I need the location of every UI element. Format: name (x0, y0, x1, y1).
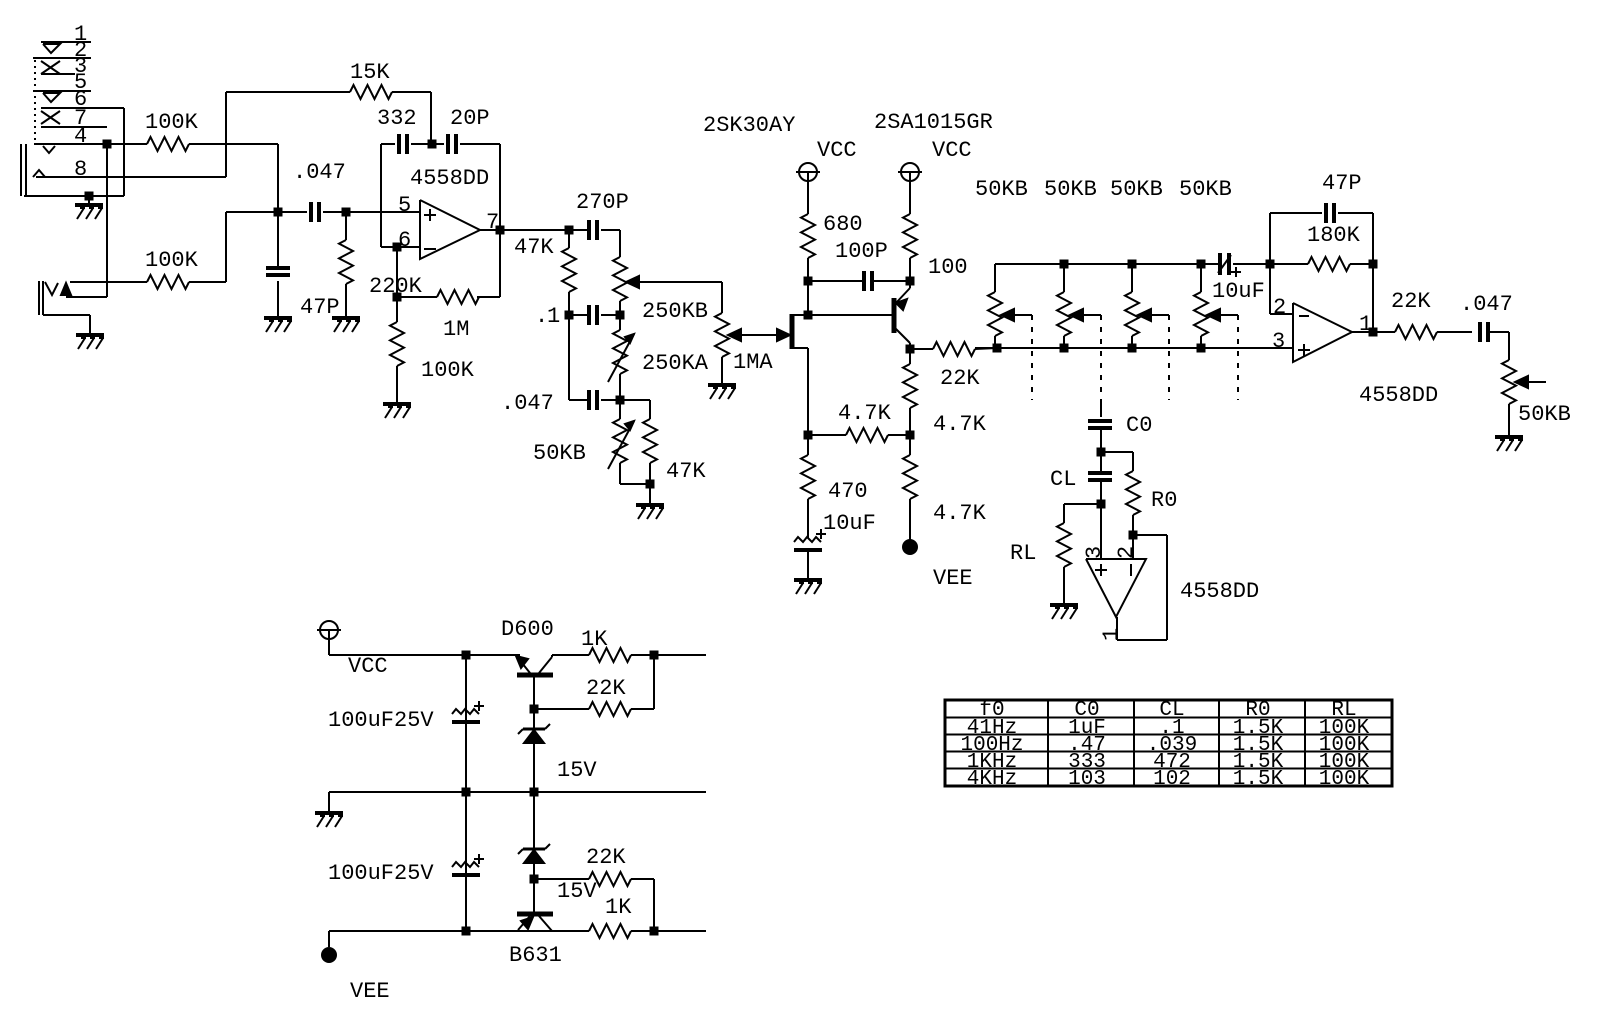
svg-text:50KB: 50KB (533, 441, 586, 466)
svg-text:.047: .047 (293, 160, 346, 185)
svg-text:100P: 100P (835, 239, 888, 264)
svg-text:22K: 22K (940, 366, 980, 391)
svg-text:4.7K: 4.7K (933, 412, 987, 437)
svg-text:47K: 47K (666, 459, 706, 484)
svg-text:2: 2 (1273, 295, 1286, 320)
svg-text:250KA: 250KA (642, 351, 709, 376)
svg-text:47P: 47P (1322, 171, 1362, 196)
svg-text:100K: 100K (145, 248, 199, 273)
svg-text:4558DD: 4558DD (1359, 383, 1438, 408)
svg-text:CL: CL (1050, 467, 1076, 492)
svg-text:.047: .047 (501, 391, 554, 416)
svg-text:47K: 47K (514, 235, 554, 260)
svg-text:1K: 1K (581, 627, 608, 652)
svg-text:15V: 15V (557, 758, 597, 783)
svg-text:4.7K: 4.7K (838, 401, 892, 426)
svg-text:22K: 22K (586, 676, 626, 701)
svg-text:4: 4 (74, 124, 87, 149)
svg-text:VCC: VCC (817, 138, 857, 163)
svg-text:1.5K: 1.5K (1233, 768, 1284, 791)
svg-text:4558DD: 4558DD (1180, 579, 1259, 604)
svg-text:5: 5 (398, 193, 411, 218)
svg-text:50KB: 50KB (1044, 177, 1097, 202)
svg-text:C0: C0 (1126, 413, 1152, 438)
svg-text:6: 6 (398, 228, 411, 253)
svg-text:100uF25V: 100uF25V (328, 708, 434, 733)
svg-text:15K: 15K (350, 60, 390, 85)
svg-text:250KB: 250KB (642, 299, 708, 324)
svg-text:RL: RL (1010, 541, 1036, 566)
svg-text:D600: D600 (501, 617, 554, 642)
svg-text:2: 2 (1114, 546, 1139, 559)
svg-text:20P: 20P (450, 106, 490, 131)
svg-text:.047: .047 (1460, 292, 1513, 317)
svg-text:R0: R0 (1151, 488, 1177, 513)
svg-text:2SA1015GR: 2SA1015GR (874, 110, 993, 135)
svg-text:B631: B631 (509, 943, 562, 968)
svg-text:4558DD: 4558DD (410, 166, 489, 191)
svg-text:VCC: VCC (932, 138, 972, 163)
svg-text:VEE: VEE (933, 566, 973, 591)
svg-text:3: 3 (1272, 329, 1285, 354)
svg-text:15V: 15V (557, 879, 597, 904)
svg-text:VCC: VCC (348, 654, 388, 679)
svg-text:1: 1 (1359, 312, 1372, 337)
svg-text:100K: 100K (145, 110, 199, 135)
svg-text:103: 103 (1068, 768, 1106, 791)
svg-text:7: 7 (486, 210, 499, 235)
svg-text:100: 100 (928, 255, 968, 280)
svg-text:4KHz: 4KHz (967, 768, 1017, 791)
svg-text:50KB: 50KB (1518, 402, 1571, 427)
svg-text:1MA: 1MA (733, 350, 773, 375)
svg-text:270P: 270P (576, 190, 629, 215)
svg-text:332: 332 (377, 106, 417, 131)
svg-text:50KB: 50KB (1179, 177, 1232, 202)
svg-text:50KB: 50KB (1110, 177, 1163, 202)
svg-text:8: 8 (74, 157, 87, 182)
svg-text:22K: 22K (1391, 289, 1431, 314)
svg-text:3: 3 (1082, 546, 1107, 559)
svg-text:VEE: VEE (350, 979, 390, 1004)
svg-text:680: 680 (823, 212, 863, 237)
svg-text:50KB: 50KB (975, 177, 1028, 202)
svg-text:102: 102 (1153, 768, 1191, 791)
svg-text:22K: 22K (586, 845, 626, 870)
svg-text:4.7K: 4.7K (933, 501, 987, 526)
svg-text:470: 470 (828, 479, 868, 504)
svg-text:10uF: 10uF (1212, 279, 1265, 304)
svg-text:180K: 180K (1307, 223, 1361, 248)
svg-text:100K: 100K (1319, 768, 1370, 791)
svg-text:100K: 100K (421, 358, 475, 383)
svg-text:2SK30AY: 2SK30AY (703, 113, 795, 138)
svg-text:1: 1 (547, 304, 560, 329)
svg-text:1M: 1M (443, 317, 469, 342)
svg-text:100uF25V: 100uF25V (328, 861, 434, 886)
svg-text:1K: 1K (605, 895, 632, 920)
svg-text:10uF: 10uF (823, 511, 876, 536)
